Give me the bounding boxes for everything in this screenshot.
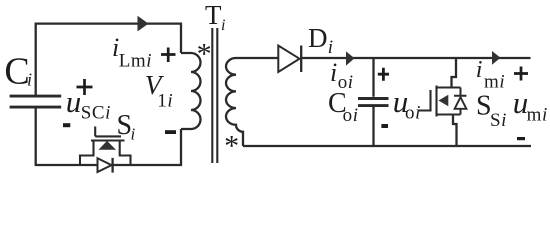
svg-text:mi: mi bbox=[527, 104, 548, 125]
svg-text:1i: 1i bbox=[157, 90, 173, 111]
svg-text:*: * bbox=[224, 130, 239, 163]
svg-text:i: i bbox=[131, 125, 136, 144]
svg-text:T: T bbox=[205, 0, 222, 30]
svg-text:i: i bbox=[476, 57, 483, 83]
svg-text:*: * bbox=[197, 37, 212, 70]
svg-text:oi: oi bbox=[405, 102, 421, 123]
svg-text:mi: mi bbox=[484, 71, 505, 92]
svg-text:SCi: SCi bbox=[81, 102, 111, 123]
svg-text:i: i bbox=[221, 17, 225, 34]
svg-text:i: i bbox=[27, 70, 32, 90]
svg-text:C: C bbox=[4, 51, 29, 93]
svg-text:Si: Si bbox=[490, 110, 507, 131]
svg-text:Lmi: Lmi bbox=[119, 50, 152, 71]
svg-text:i: i bbox=[328, 37, 333, 58]
svg-text:oi: oi bbox=[343, 105, 359, 126]
svg-text:u: u bbox=[66, 84, 82, 119]
svg-text:i: i bbox=[330, 58, 337, 87]
svg-text:D: D bbox=[308, 23, 328, 53]
